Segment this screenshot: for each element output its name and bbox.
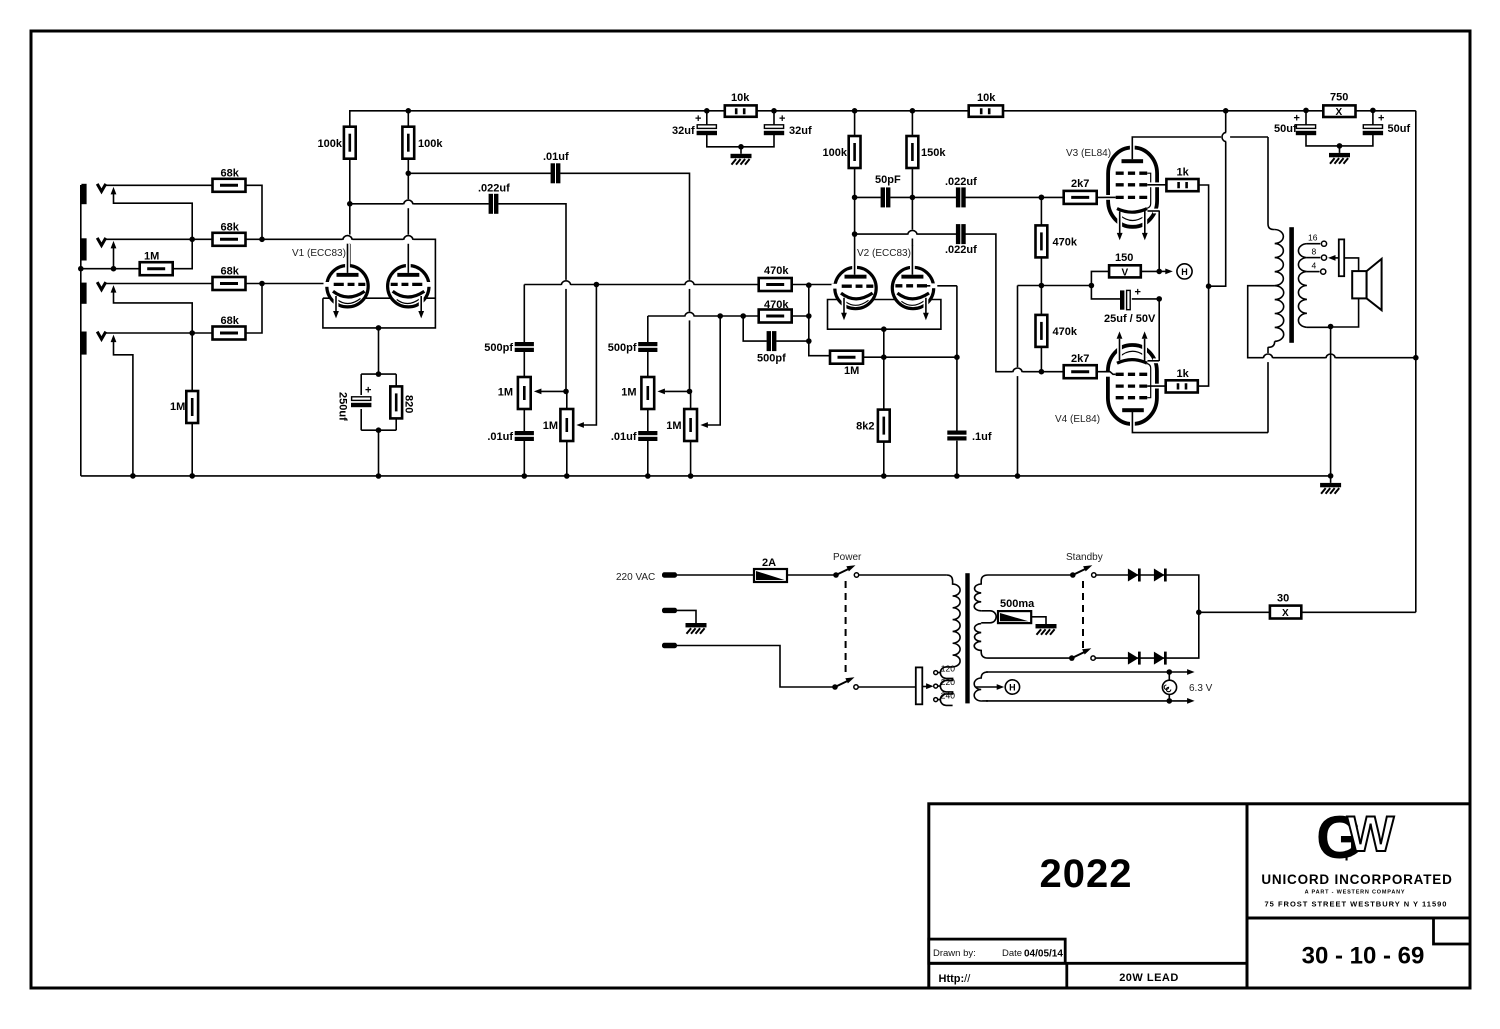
- secondary bottom lead: [1307, 326, 1331, 328]
- wire 500pf bridge row: [743, 316, 809, 341]
- wire .1uf to bus: [956, 441, 958, 476]
- selector arrow: [922, 686, 929, 688]
- triode V2B envelope: [892, 267, 933, 308]
- pot stack1 wiper arrow: [538, 390, 566, 392]
- node line A wiper riser: [594, 282, 600, 288]
- svg-text:+: +: [779, 113, 785, 125]
- V4 anode: [1122, 408, 1144, 412]
- V4 screen lead: [1150, 384, 1160, 389]
- resistor 1M grid leak ch2 vertical: [191, 333, 193, 391]
- V1 cathode RC frame: [361, 374, 396, 430]
- resistor 68k R4: [213, 327, 246, 340]
- svg-text:1M: 1M: [666, 420, 681, 432]
- svg-text:68k: 68k: [221, 266, 240, 278]
- V3 glass bottom arc: [1119, 214, 1147, 220]
- capacitor .022uf coupling ch1: [489, 194, 499, 214]
- resistor 750 dropper: [1323, 105, 1355, 117]
- wire divider junction row: [1018, 257, 1121, 299]
- capacitor .022uf coupling lower: [956, 224, 966, 244]
- node rail 50uf left: [1303, 108, 1309, 114]
- V3 anode lead: [1130, 144, 1135, 157]
- svg-text:.01uf: .01uf: [611, 431, 637, 443]
- V1B heater arc: [397, 299, 421, 304]
- resistor 8k2 cathode: [878, 410, 890, 442]
- B+ rail segment 1: [350, 111, 707, 127]
- V3 screen lead: [1150, 182, 1160, 187]
- V2A heater arc: [845, 300, 869, 305]
- wire V4 cathode up: [1158, 299, 1160, 361]
- capacitor 500pf bridge: [767, 331, 777, 351]
- node jack2 tip junction: [189, 237, 195, 243]
- svg-text:68k: 68k: [221, 168, 240, 180]
- wire V2A plate node: [855, 168, 881, 234]
- wire V1B plate node: [407, 159, 409, 174]
- wire R1 out: [246, 185, 263, 239]
- V1A anode: [337, 273, 359, 277]
- svg-text:100k: 100k: [823, 147, 848, 159]
- svg-text:1M: 1M: [844, 365, 859, 377]
- diode D2: [1154, 569, 1167, 582]
- resistor 1k V3 screen: [1166, 179, 1198, 191]
- hop screen riser over anode wire: [1221, 132, 1230, 142]
- svg-text:W: W: [1347, 806, 1395, 862]
- resistor 30 X: [1270, 606, 1301, 619]
- OT core: [1289, 227, 1294, 343]
- tap 16: [1307, 243, 1320, 245]
- V3 grid2 screen: [1116, 183, 1147, 186]
- right section divider: [1247, 917, 1470, 920]
- node line B 500pf drop: [740, 313, 746, 319]
- V4 grid3: [1116, 396, 1147, 399]
- node cathode column: [1156, 269, 1162, 275]
- heater circle H2: [1005, 680, 1019, 694]
- svg-text:8: 8: [1312, 247, 1317, 257]
- node screen B+ tap: [1223, 108, 1229, 114]
- svg-text:68k: 68k: [221, 315, 240, 327]
- ground 32uf: [738, 144, 744, 150]
- node rectifier output: [1196, 610, 1202, 616]
- V2A cathode lead arrow: [842, 298, 847, 310]
- svg-text:+: +: [695, 113, 701, 125]
- wire 1k V3 to screen column: [1199, 185, 1209, 286]
- V1B cathode lead arrow: [419, 296, 424, 308]
- resistor 100k V2A plate: [854, 111, 856, 135]
- node V1 cathode box bottom: [376, 325, 382, 331]
- resistor 68k R3: [213, 277, 246, 290]
- capacitor 50pF bridge: [881, 187, 891, 207]
- svg-text:30: 30: [1277, 593, 1289, 605]
- V4 grid2 screen: [1116, 384, 1147, 387]
- wire V1B plate lead with hop: [407, 173, 409, 265]
- capacitor 32uf left: [707, 111, 741, 147]
- capacitor .01uf coupling: [551, 163, 561, 183]
- diode D4: [1154, 652, 1167, 665]
- wire V2A plate to lower .022 with hop: [855, 233, 957, 235]
- V4 anode lead: [1130, 414, 1135, 427]
- tap 4: [1307, 271, 1320, 273]
- tap circle 240: [934, 698, 938, 702]
- svg-text:H: H: [1181, 267, 1188, 277]
- svg-text:04/05/14: 04/05/14: [1024, 949, 1063, 960]
- OT center tap: [1248, 286, 1416, 358]
- wire 1M right to cathode column: [863, 356, 957, 358]
- wire vol stack2 to bus: [690, 441, 692, 476]
- V2A grid: [832, 284, 840, 289]
- ground chassis: [686, 616, 707, 634]
- V4 cathode: [1117, 360, 1147, 364]
- node bus stack2: [645, 473, 651, 479]
- V1A cathode lead arrow: [334, 296, 339, 308]
- svg-text:V3 (EL84): V3 (EL84): [1066, 148, 1111, 159]
- wire heater bottom: [986, 700, 1190, 702]
- node jack4 tip junction: [189, 330, 195, 336]
- notch box: [1434, 918, 1471, 944]
- svg-text:.022uf: .022uf: [945, 244, 977, 256]
- terminal mains neutral: [662, 643, 677, 648]
- V3 g3 to cathode hook: [1147, 173, 1151, 208]
- node bus jack4: [130, 473, 136, 479]
- V4 glass top arc: [1119, 351, 1147, 357]
- OT secondary winding: [1298, 244, 1306, 328]
- wire vol stack1 to bus: [566, 441, 568, 476]
- svg-text:Http://: Http://: [939, 973, 972, 985]
- OT primary bottom lead: [1268, 341, 1275, 432]
- wire V3 cathode down: [1158, 211, 1160, 272]
- jack J4 body: [81, 332, 86, 355]
- fuse 500ma: [998, 611, 1031, 623]
- PT core: [965, 573, 969, 703]
- wire 150 to cathode column: [1141, 270, 1159, 272]
- tap circle 220: [934, 684, 938, 688]
- svg-text:1M: 1M: [498, 387, 513, 399]
- wire 25uf row to cathode column: [1132, 298, 1159, 300]
- V1 cathode box: [323, 284, 436, 328]
- svg-text:8k2: 8k2: [856, 421, 874, 433]
- svg-text:X: X: [1282, 608, 1289, 619]
- wire J1 tip to R1: [106, 184, 213, 186]
- resistor 470k mixer 1: [759, 278, 792, 291]
- V2 cathode box: [828, 300, 941, 330]
- heater arrow H: [1159, 270, 1168, 272]
- node divider junction: [1039, 283, 1045, 289]
- triode V1B envelope: [388, 266, 429, 307]
- title divider vertical: [1246, 804, 1249, 988]
- capacitor 50uf left: [1306, 111, 1340, 146]
- V3 cathode exit wire: [1153, 209, 1158, 214]
- svg-text:+: +: [1135, 287, 1141, 299]
- wire 2k7 V4 to grid: [1097, 371, 1116, 373]
- svg-text:220 VAC: 220 VAC: [616, 572, 655, 583]
- resistor 100k V1A plate: [344, 127, 356, 159]
- wire R4 out: [246, 284, 263, 334]
- node 2k7 V3 row: [1039, 195, 1045, 201]
- V1B grid: [426, 282, 433, 287]
- wire 2k7 V3 to grid: [1097, 196, 1116, 198]
- ground 50uf: [1337, 143, 1343, 149]
- V2B cathode: [897, 293, 929, 299]
- V2B anode: [901, 275, 923, 279]
- wire fuse to ground: [1031, 616, 1046, 618]
- svg-text:10k: 10k: [977, 92, 996, 104]
- triode V2A envelope: [835, 267, 876, 308]
- svg-text:.1uf: .1uf: [972, 431, 992, 443]
- svg-text:20W LEAD: 20W LEAD: [1119, 972, 1179, 984]
- svg-text:1k: 1k: [1177, 167, 1190, 179]
- V2A anode: [845, 275, 867, 279]
- wire 8k2 to bus: [883, 442, 885, 476]
- svg-text:1M: 1M: [543, 420, 558, 432]
- svg-text:470k: 470k: [764, 265, 789, 277]
- wire HT top to standby: [988, 574, 1073, 576]
- impedance selector bar: [1339, 239, 1344, 276]
- svg-text:500ma: 500ma: [1000, 598, 1035, 610]
- pot 1M volume stack1: [566, 391, 568, 409]
- svg-text:1M: 1M: [144, 251, 159, 263]
- wire stack1 left chain: [523, 285, 525, 477]
- diode D1: [1128, 569, 1141, 582]
- node V2 cathode box bottom: [881, 326, 887, 332]
- jack J3 body: [81, 283, 86, 304]
- svg-text:2k7: 2k7: [1071, 178, 1089, 190]
- V1B cathode: [393, 291, 425, 297]
- svg-text:32uf: 32uf: [789, 125, 812, 137]
- svg-text:470k: 470k: [1053, 237, 1078, 249]
- V4 cathode exit wire: [1153, 358, 1158, 363]
- wire V1A plate lead: [349, 204, 351, 266]
- hop grid link over V1A anode lead: [343, 235, 353, 244]
- wire 1M to bus: [191, 423, 193, 476]
- ground main bus: [1320, 476, 1341, 494]
- wire 470k lower to V4 grid row: [1040, 347, 1042, 372]
- svg-text:2022: 2022: [1040, 852, 1133, 896]
- node secondary ground: [1328, 324, 1334, 330]
- drawn-by box: [929, 939, 1065, 963]
- capacitor 500pf stack1: [515, 342, 534, 352]
- svg-text:Date: Date: [1002, 948, 1022, 959]
- tube V3 EL84 envelope: [1108, 148, 1157, 227]
- jack J2 ring arrow: [111, 241, 117, 249]
- diode D3: [1128, 652, 1141, 665]
- svg-text:UNICORD INCORPORATED: UNICORD INCORPORATED: [1261, 872, 1452, 887]
- wire stack2 left chain: [647, 316, 649, 476]
- wire heater top: [986, 671, 1190, 673]
- node bus right end: [1328, 473, 1334, 479]
- svg-text:750: 750: [1330, 92, 1348, 104]
- capacitor .01uf stack2: [638, 431, 657, 441]
- terminal mains ground: [662, 608, 677, 613]
- V2B cathode lead arrow: [924, 298, 929, 310]
- heater circle H: [1177, 264, 1192, 279]
- svg-text:.022uf: .022uf: [945, 176, 977, 188]
- svg-text:.022uf: .022uf: [478, 183, 510, 195]
- svg-text:Drawn by:: Drawn by:: [933, 948, 976, 959]
- pot 1M tone stack1: [518, 377, 531, 409]
- svg-text:50uf: 50uf: [1274, 123, 1297, 135]
- bottom row line: [929, 962, 1247, 965]
- wire .01uf row: [408, 173, 689, 391]
- svg-text:500pf: 500pf: [484, 342, 513, 354]
- wire cathode to RC: [378, 328, 380, 374]
- wire grid-leak row ch1: [81, 268, 140, 270]
- V4 grid1: [1116, 373, 1147, 376]
- node screen junction: [1206, 283, 1212, 289]
- wire secondary ground column: [1330, 327, 1332, 476]
- switch Power lower: [832, 684, 838, 690]
- svg-text:V1 (ECC83): V1 (ECC83): [292, 248, 346, 259]
- wire .022 lower out: [966, 234, 1065, 372]
- jack J2 tip contact: [97, 238, 106, 246]
- V3 cathode: [1117, 209, 1147, 213]
- svg-text:100k: 100k: [318, 138, 343, 150]
- wire line B (ch2 vol out) with hop: [648, 315, 759, 317]
- power switch link: [845, 581, 847, 672]
- voltage selector bar: [916, 667, 923, 704]
- heater center stub arrow: [976, 686, 1000, 688]
- resistor 470k divider lower: [1040, 286, 1042, 315]
- resistor 68k R2: [213, 233, 246, 246]
- V2A cathode: [841, 293, 873, 299]
- V1B anode: [397, 273, 419, 277]
- tube V4 EL84 envelope: [1108, 345, 1157, 424]
- jack J1 ring arrow: [111, 187, 117, 195]
- svg-text:V4 (EL84): V4 (EL84): [1055, 414, 1100, 425]
- speaker: [1352, 271, 1366, 298]
- svg-text:+: +: [1378, 113, 1384, 125]
- wire V1 grid top link with hops: [262, 239, 435, 283]
- node rail 32uf right: [771, 108, 777, 114]
- svg-text:500pf: 500pf: [608, 342, 637, 354]
- capacitor 32uf right: [741, 111, 774, 147]
- svg-text:100k: 100k: [418, 138, 443, 150]
- resistor 10k dropper 1: [725, 105, 757, 116]
- jack J2 body: [81, 238, 86, 260]
- svg-text:470k: 470k: [764, 299, 789, 311]
- V3 grid3: [1116, 172, 1147, 175]
- ground HT center tap: [1036, 617, 1057, 635]
- svg-text:+: +: [1294, 113, 1300, 125]
- wire .022uf row: [350, 204, 566, 392]
- resistor 1k V4 screen: [1166, 380, 1198, 392]
- wire power switch to transformer: [859, 574, 947, 576]
- node bus stack1: [522, 473, 528, 479]
- V3 grid1: [1116, 196, 1147, 199]
- wire HT bottom to standby lower: [988, 657, 1072, 659]
- wire to chassis ground: [677, 610, 696, 616]
- capacitor 250uf cathode bypass: [351, 397, 371, 407]
- wire RC to bus: [378, 430, 380, 476]
- jack J3 ring arrow: [111, 285, 117, 293]
- V4 cathode lead right arrow: [1142, 340, 1147, 358]
- ground bus: [81, 475, 1332, 477]
- wire rectifier to 30X: [1199, 611, 1270, 613]
- wire speaker return: [1331, 298, 1359, 327]
- resistor 2k7 V3 grid: [1064, 191, 1097, 204]
- svg-text:6.3 V: 6.3 V: [1189, 683, 1213, 694]
- wire V1A plate node: [349, 159, 351, 204]
- wire V1A grid in: [262, 283, 330, 285]
- wire 1k V4 to screen column: [1198, 286, 1209, 386]
- svg-text:V2 (ECC83): V2 (ECC83): [857, 248, 911, 259]
- V2B grid: [927, 285, 957, 287]
- wire rectifier top row: [1095, 575, 1199, 658]
- PT primary tap loops: [940, 667, 952, 706]
- node line B wiper riser: [717, 313, 723, 319]
- svg-text:150: 150: [1115, 252, 1133, 264]
- resistor 2k7 V4 grid: [1064, 365, 1097, 378]
- svg-text:+: +: [1341, 846, 1352, 867]
- switch Power upper: [833, 572, 839, 578]
- svg-text:470k: 470k: [1053, 326, 1078, 338]
- OT primary top lead: [1268, 137, 1275, 230]
- svg-text:+: +: [365, 385, 371, 397]
- resistor 68k R1: [213, 179, 246, 192]
- jack J3 tip contact: [97, 282, 106, 290]
- OT primary winding lower: [1275, 286, 1284, 342]
- OT primary winding upper: [1275, 230, 1284, 286]
- svg-text:V: V: [1122, 268, 1129, 279]
- pot stack2 wiper arrow: [662, 390, 690, 392]
- svg-text:.01uf: .01uf: [543, 151, 569, 163]
- jack J4 ring arrow: [111, 335, 117, 343]
- wire neutral to power switch lower: [677, 646, 835, 688]
- capacitor 25uf bias: [1120, 290, 1124, 309]
- jack J1 tip contact: [97, 184, 106, 192]
- triode V1A envelope: [327, 266, 368, 307]
- wire 30X to B+ column: [1301, 611, 1416, 613]
- wire 1M to jack2 tip column: [172, 239, 192, 268]
- svg-text:68k: 68k: [221, 222, 240, 234]
- svg-text:Standby: Standby: [1066, 552, 1103, 563]
- resistor 10k dropper 2: [969, 105, 1003, 116]
- resistor 470k divider upper: [1040, 197, 1042, 225]
- resistor 150 hum balance: [1109, 265, 1141, 277]
- wire .022 upper out: [966, 196, 1065, 198]
- B+ rail segment 2: [707, 110, 1416, 112]
- svg-text:500pf: 500pf: [757, 353, 786, 365]
- node center tap to B+: [1413, 355, 1419, 361]
- svg-text:50pF: 50pF: [875, 174, 901, 186]
- V3 cathode lead left arrow: [1117, 214, 1122, 232]
- capacitor .1uf feedback: [947, 431, 966, 441]
- capacitor 50uf right: [1340, 111, 1373, 146]
- node bus 1M: [189, 473, 195, 479]
- svg-text:32uf: 32uf: [672, 125, 695, 137]
- standby switch link: [1082, 581, 1084, 650]
- resistor 150k V2B plate: [911, 111, 913, 135]
- wire R3 out junction: [246, 283, 263, 285]
- wire fuse to power switch: [787, 574, 836, 576]
- wire screen junction to B+ rail: [1209, 111, 1226, 286]
- pot 1M tone stack2: [641, 377, 654, 409]
- terminal mains line: [662, 572, 677, 577]
- tap 8: [1307, 257, 1320, 259]
- svg-text:4: 4: [1312, 260, 1317, 270]
- capacitor .01uf stack1: [515, 431, 534, 441]
- svg-text:A PART - WESTERN COMPANY: A PART - WESTERN COMPANY: [1305, 890, 1406, 896]
- jack sleeve bus line: [80, 185, 82, 476]
- svg-text:2A: 2A: [762, 557, 776, 569]
- wire J3 tip to R3: [106, 283, 213, 285]
- switch Standby upper: [1070, 572, 1076, 578]
- capacitor .022uf coupling upper: [956, 187, 966, 207]
- PT primary winding: [947, 575, 961, 667]
- node V2A grid: [806, 282, 812, 288]
- svg-text:50uf: 50uf: [1388, 123, 1411, 135]
- svg-text:1k: 1k: [1177, 368, 1190, 380]
- jack J1 body: [81, 184, 86, 204]
- wire PI divider tail to bus: [1017, 286, 1019, 477]
- wire J4 tip to R4: [106, 332, 213, 334]
